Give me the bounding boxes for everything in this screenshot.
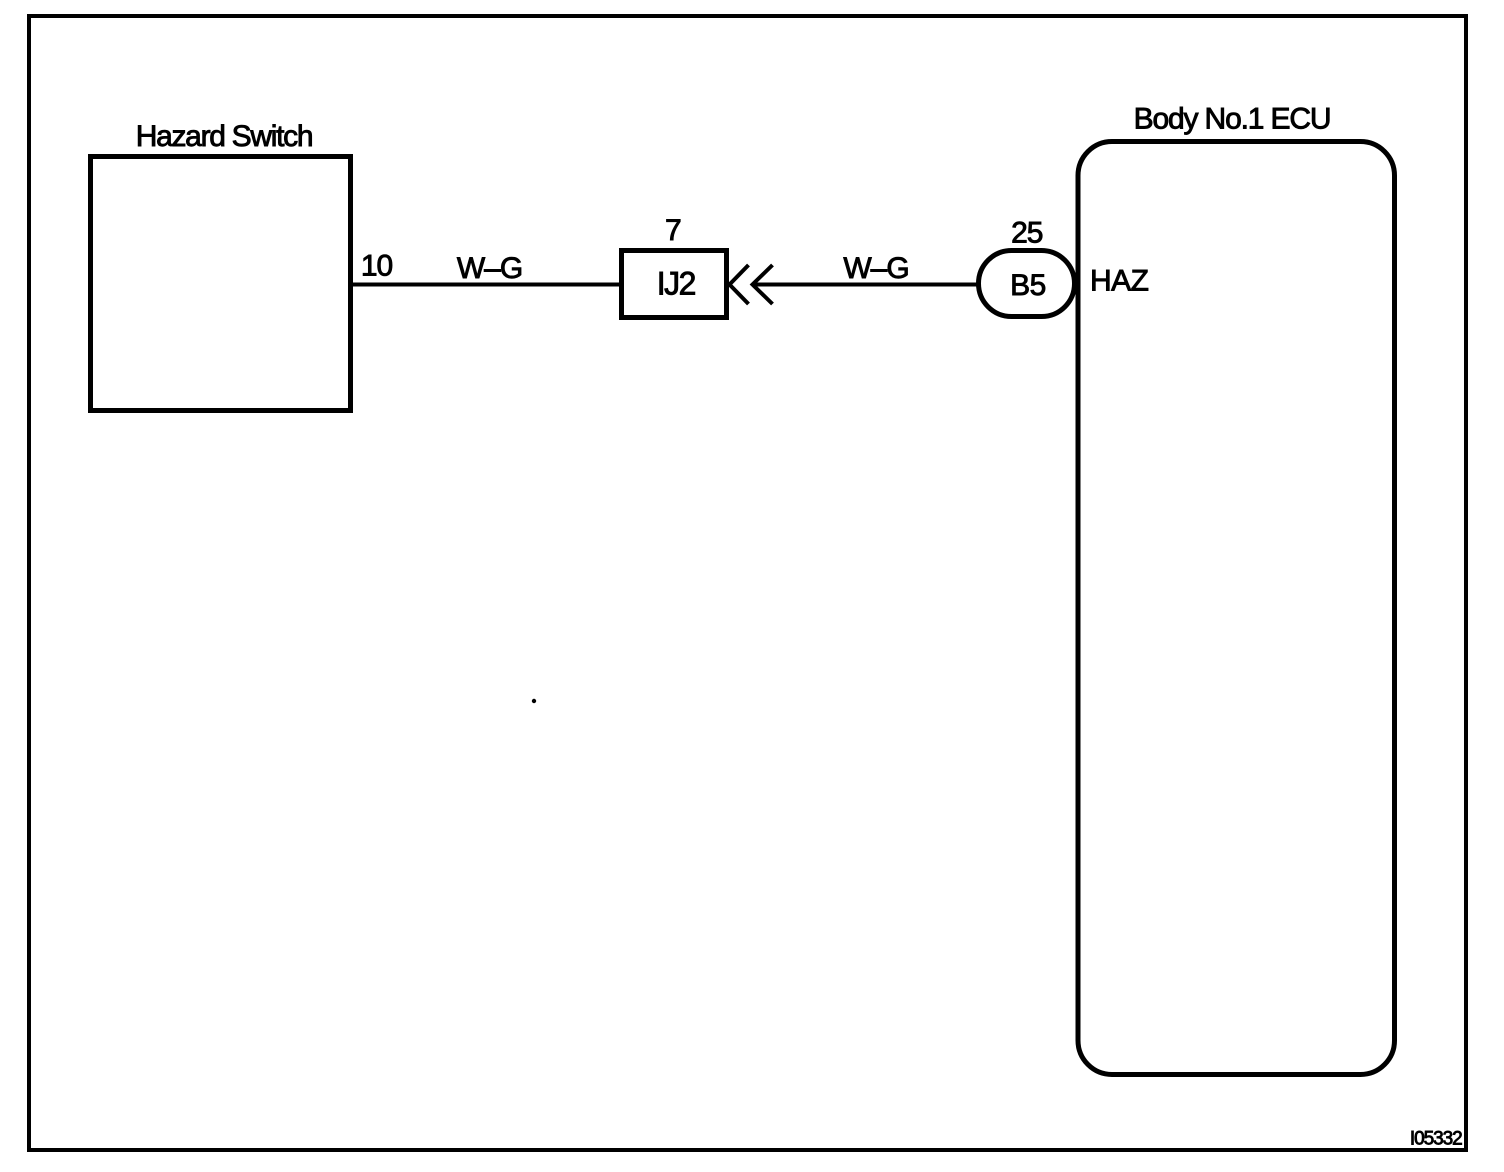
svg-text:W–G: W–G [457, 252, 522, 285]
svg-text:W–G: W–G [843, 252, 908, 285]
svg-text:10: 10 [361, 250, 393, 283]
svg-text:Hazard Switch: Hazard Switch [136, 120, 313, 153]
speck artifact [532, 699, 536, 703]
junction connector IJ2 box [622, 251, 727, 318]
component box Hazard Switch [91, 157, 351, 411]
svg-text:I05332: I05332 [1410, 1129, 1462, 1150]
svg-text:25: 25 [1011, 217, 1043, 250]
connector B5 oval [979, 251, 1075, 317]
svg-text:HAZ: HAZ [1090, 265, 1149, 298]
connector chevron 1 (female side at IJ2) [730, 265, 749, 304]
connector chevron 2 (male side of wire) [753, 265, 773, 304]
svg-text:IJ2: IJ2 [657, 266, 696, 302]
wire W-G from chevron connector to connector B5 [753, 283, 977, 287]
svg-text:Body No.1 ECU: Body No.1 ECU [1134, 103, 1331, 136]
svg-text:7: 7 [665, 214, 682, 247]
ECU block Body No.1 ECU [1078, 142, 1395, 1075]
wire W-G from Hazard Switch pin 10 to junction IJ2 [353, 283, 621, 287]
svg-text:B5: B5 [1010, 269, 1046, 302]
